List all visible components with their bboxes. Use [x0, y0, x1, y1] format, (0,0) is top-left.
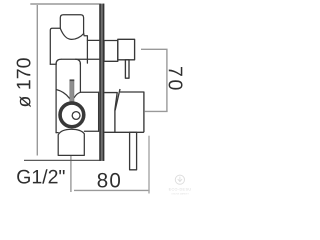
svg-text:ONLINE MARKET: ONLINE MARKET	[171, 192, 190, 195]
svg-text:ECO-DESU: ECO-DESU	[169, 187, 192, 191]
